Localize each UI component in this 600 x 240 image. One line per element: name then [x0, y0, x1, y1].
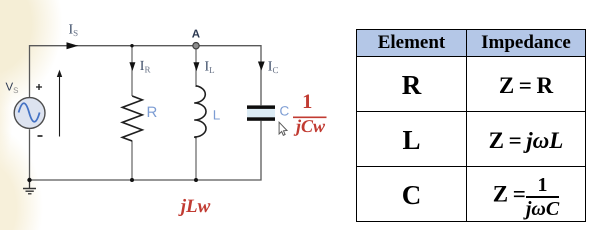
junction dot at resistor top: [130, 44, 133, 47]
svg-text:+: +: [36, 80, 43, 94]
svg-text:IC: IC: [268, 60, 279, 76]
polarity -: [38, 135, 43, 137]
junction dot resistor bottom: [130, 178, 134, 182]
current Is arrow: [67, 42, 79, 49]
wire: top rail from source to capacitor branch: [30, 46, 262, 105]
capacitor C (plates): [247, 109, 275, 117]
svg-text:jLw: jLw: [178, 196, 211, 217]
inductor L (coils): [194, 86, 206, 138]
impedance table: [356, 29, 586, 222]
svg-text:L: L: [213, 108, 221, 123]
wire: bottom rail: [30, 121, 262, 180]
current direction arrow (up): [59, 75, 61, 137]
svg-text:C: C: [280, 104, 290, 119]
svg-text:jCw: jCw: [293, 116, 326, 136]
wire: inductor branch: [195, 46, 197, 87]
junction dot at ground: [27, 178, 31, 182]
ground: [29, 180, 31, 188]
svg-text:IS: IS: [69, 23, 79, 39]
mouse cursor: [279, 122, 287, 135]
red annotation 1/jCw: [293, 91, 327, 136]
resistor R (zigzag): [122, 96, 142, 141]
svg-text:IR: IR: [140, 59, 151, 75]
junction dot inductor bottom: [194, 178, 198, 182]
svg-text:R: R: [147, 104, 158, 121]
svg-text:1: 1: [302, 91, 312, 113]
svg-text:VS: VS: [6, 82, 19, 96]
current IL arrow: [193, 62, 199, 71]
current IR arrow: [129, 62, 135, 71]
svg-text:A: A: [192, 29, 200, 41]
wire: resistor branch: [131, 46, 133, 96]
current IC arrow: [258, 62, 265, 71]
voltage source VS: [14, 98, 45, 129]
node A: [193, 43, 199, 49]
svg-text:IL: IL: [205, 60, 215, 76]
